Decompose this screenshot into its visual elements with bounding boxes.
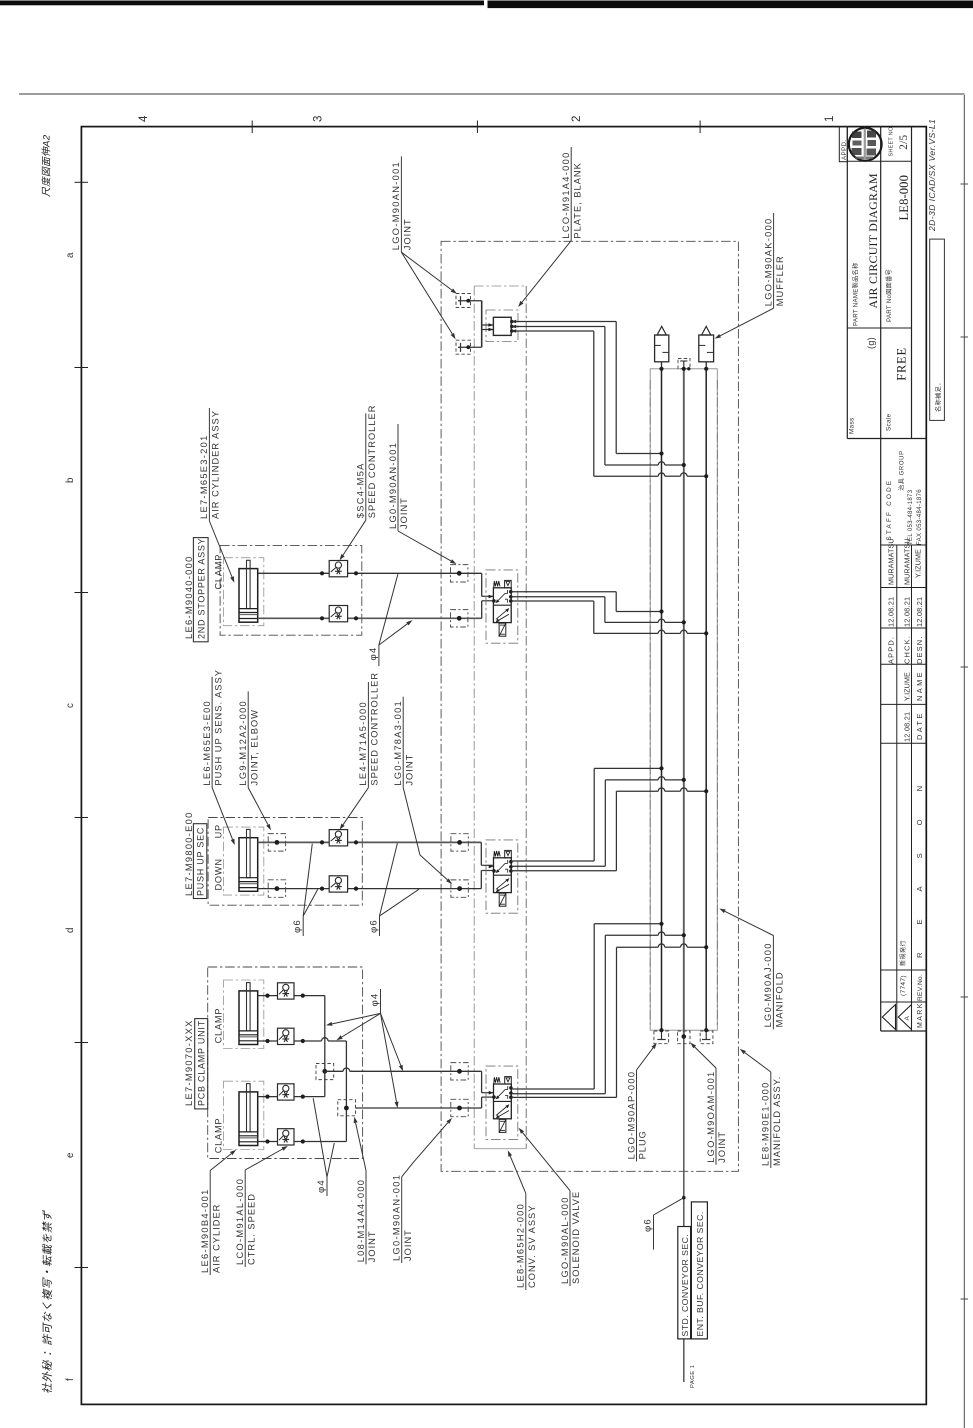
- node dots SC-D: [265, 1139, 269, 1143]
- svg-text:PUSH UP SENS. ASSY: PUSH UP SENS. ASSY: [213, 669, 223, 786]
- manifold assembly chain-line boundary box: [441, 241, 738, 1171]
- wire cyl1 rod port: [258, 572, 482, 574]
- node st2-bus1: [659, 766, 663, 770]
- svg-text:名称補足．: 名称補足．: [935, 379, 943, 412]
- wire st2 valve to bus3: [511, 788, 706, 871]
- svg-text:PART NAME製品名称: PART NAME製品名称: [852, 263, 860, 326]
- plate left port wires: [482, 301, 494, 348]
- wire st2 valve to bus2: [511, 777, 684, 867]
- scan artifact: top black bar left: [0, 1, 484, 6]
- label phi4 pcb bottom: [313, 1098, 334, 1196]
- svg-text:LE7-M65E3-201: LE7-M65E3-201: [199, 434, 209, 519]
- svg-text:DOWN: DOWN: [214, 858, 224, 890]
- joint (chain box) LG0-M90AN-001 st3 lower: [451, 1099, 468, 1116]
- svg-text:STAFF CODE: STAFF CODE: [886, 479, 893, 541]
- svg-text:CLAMP: CLAMP: [214, 1008, 224, 1044]
- svg-text:UP: UP: [214, 824, 224, 838]
- cylinder chain box station1: [224, 558, 264, 626]
- exhaust bus line 3: [705, 369, 707, 1030]
- label phi6 supply: [643, 1198, 684, 1250]
- svg-text:AIR CIRCUIT DIAGRAM: AIR CIRCUIT DIAGRAM: [866, 173, 880, 309]
- solenoid valve station2 chain box: [486, 840, 518, 913]
- svg-text:A: A: [904, 1016, 911, 1021]
- conveyor SV assembly chain-line column box: [474, 286, 526, 1149]
- svg-text:LGO-M90AL-000: LGO-M90AL-000: [560, 1196, 570, 1284]
- svg-text:12.08.21: 12.08.21: [903, 597, 912, 627]
- plug on bus3 (dashed): [700, 1030, 713, 1044]
- label LE7-M65E3-201 AIR CYLINDER ASSY: [199, 408, 234, 583]
- svg-text:PLATE, BLANK: PLATE, BLANK: [572, 162, 582, 238]
- pcb clamp unit chain box: [208, 967, 363, 1159]
- svg-text:LE8-M90E1-000: LE8-M90E1-000: [761, 1081, 771, 1166]
- node: joint2 out: [466, 345, 470, 349]
- label phi6 station2 right: [369, 843, 420, 936]
- svg-text:φ6: φ6: [369, 919, 380, 933]
- wire tee2 to valve3 (lower): [356, 1107, 482, 1109]
- solenoid valve station3 body: [489, 1077, 513, 1133]
- node dots SC-A: [265, 994, 269, 998]
- node st2-bus3: [704, 789, 708, 793]
- label LE8-M65H2-000 CONV SV ASSY: [508, 1150, 537, 1290]
- svg-text:φ6: φ6: [643, 1218, 654, 1232]
- plate blank LCO-M91A4-000: [493, 317, 511, 335]
- svg-text:PART No図面番号: PART No図面番号: [886, 269, 893, 322]
- svg-text:4: 4: [138, 115, 150, 122]
- supply line to conveyor sections: [683, 1037, 685, 1383]
- svg-text:MURAMATSU: MURAMATSU: [887, 538, 896, 585]
- svg-text:LE7-M9070-XXX: LE7-M9070-XXX: [184, 1019, 194, 1106]
- svg-text:LE6-M90B4-001: LE6-M90B4-001: [200, 1188, 210, 1273]
- joint (chain box) LG0-M78A3-001 st2 upper: [451, 834, 468, 851]
- scan artifact: paper top edge line: [19, 93, 965, 95]
- wire cyl2 piston port: [258, 888, 482, 890]
- svg-text:CHCK.: CHCK.: [903, 635, 912, 664]
- label LG0-M90AN-001 JOINT (station1): [388, 424, 457, 564]
- 2nd stopper boxed label LE6-M9040-000: [184, 538, 208, 642]
- air cylinder station1 CLAMP: [239, 560, 258, 622]
- node: LG0-M90AN-001 st3 upper: [457, 1069, 462, 1074]
- node: muffler2 to bus1: [704, 367, 708, 371]
- supplementary name box below frame: [930, 239, 945, 420]
- label LG9-M12A2-000 JOINT ELBOW: [238, 691, 271, 830]
- svg-text:LE4-M71A5-000: LE4-M71A5-000: [358, 701, 368, 786]
- bus manifold thin box: [650, 369, 717, 1030]
- svg-text:MANIFOLD: MANIFOLD: [775, 971, 785, 1027]
- supply bus line 2: [683, 369, 685, 1037]
- svg-text:JOINT: JOINT: [717, 1131, 727, 1163]
- svg-text:LE6-M65E3-E00: LE6-M65E3-E00: [202, 700, 212, 786]
- svg-text:LG0-M90AN-001: LG0-M90AN-001: [392, 1174, 402, 1261]
- label LG8-M14A4-000 JOINT: [354, 1117, 378, 1265]
- speed controller pcb SC-B: [278, 1028, 295, 1044]
- speed controller LE4-M71A5-000 #2: [329, 876, 347, 892]
- joint (chain box) LG0-M90AN-001 st1 lower: [451, 610, 468, 627]
- svg-text:APPD.: APPD.: [841, 139, 848, 160]
- node: plate1-bus1: [659, 451, 663, 455]
- svg-text:AIR CYLIDER: AIR CYLIDER: [211, 1204, 221, 1273]
- label LGO-M90AJ-000 MANIFOLD: [719, 909, 784, 1030]
- joint LGO-M90AM-001 on bus2 (dashed): [678, 1031, 690, 1044]
- speed controller pcb SC-A: [278, 983, 295, 999]
- cylinder chain box pcb2: [224, 1081, 264, 1149]
- label LE6-M65E3-E00 PUSH UP SENS ASSY: [202, 669, 235, 845]
- node: joint1 out: [466, 299, 470, 303]
- wire st3 into valve: [482, 1071, 494, 1108]
- svg-text:Y.IZUME: Y.IZUME: [903, 672, 912, 701]
- zone ticks on top edge: [252, 121, 700, 134]
- wire tee1 to valve3 (upper): [325, 1070, 343, 1072]
- wire cyl1 piston port: [258, 617, 482, 619]
- node: plate2-bus2: [682, 463, 686, 467]
- APPD mini box above stamp cell: [839, 127, 847, 162]
- svg-text:MARK: MARK: [917, 1002, 924, 1028]
- label LCO-M91AL-000 CTRL SPEED: [235, 1146, 288, 1267]
- svg-text:L08-M14A4-000: L08-M14A4-000: [356, 1179, 366, 1263]
- svg-text:d: d: [65, 928, 76, 933]
- svg-text:SHEET NO.: SHEET NO.: [889, 125, 895, 157]
- node bus2 joint: [682, 1034, 687, 1039]
- boxed label STD CONVEYOR SEC: [678, 1227, 691, 1339]
- svg-text:LCO-M91AL-000: LCO-M91AL-000: [235, 1178, 245, 1265]
- node: LG0-M78A3-001 st2 upper: [457, 840, 462, 845]
- exhaust bus line 1: [661, 369, 663, 1030]
- label LG0-M90AN-001 JOINT (pcb): [392, 1118, 453, 1263]
- joint (chain box) LG0-M90AN-001 st1 upper: [451, 565, 468, 582]
- svg-text:LGO-M9OAM-001: LGO-M9OAM-001: [706, 1070, 716, 1162]
- svg-text:a: a: [65, 252, 76, 258]
- svg-text:φ6: φ6: [292, 919, 303, 933]
- wire st1 valve to bus2: [511, 597, 684, 623]
- label LE8-M90E1-000 MANIFOLD ASSY: [740, 1049, 782, 1168]
- revision triangle row2 with A: [898, 1005, 911, 1030]
- node tee2: [344, 1106, 349, 1111]
- node st1-bus2: [682, 620, 686, 624]
- label LCO-M91A4-000 PLATE BLANK: [518, 147, 582, 307]
- wire st3 valve to bus2: [511, 932, 684, 1094]
- svg-text:3: 3: [313, 116, 325, 122]
- label LGO-M90AM-001 JOINT: [690, 1043, 727, 1165]
- label LGO-M90AK-000 MUFFLER: [715, 213, 785, 339]
- air cylinder pcb clamp1: [239, 983, 258, 1045]
- wire st3 valve to bus1: [511, 924, 661, 1089]
- svg-text:JOINT: JOINT: [367, 1230, 377, 1262]
- label LGO-M90AN-001 JOINT (plate joints): [391, 156, 457, 339]
- svg-text:LE7-M9800-E00: LE7-M9800-E00: [184, 811, 194, 896]
- svg-text:CLAMP: CLAMP: [214, 554, 224, 590]
- wire plate port2 to bus2: [511, 327, 684, 466]
- svg-text:CONV. SV ASSY: CONV. SV ASSY: [527, 1205, 537, 1288]
- zone ticks on left edge: [75, 182, 89, 1267]
- svg-text:PLUG: PLUG: [638, 1130, 648, 1159]
- node dots SC4: [320, 887, 324, 891]
- node elbow2: [275, 886, 280, 891]
- svg-text:2/5: 2/5: [898, 134, 910, 149]
- plate right ports: [510, 320, 516, 333]
- wire pcb cyl1 piston: [258, 1040, 322, 1042]
- wire pcb cyl2 piston: [258, 1141, 347, 1143]
- node st3-bus3: [704, 945, 708, 949]
- label phi4 station1: [368, 574, 412, 666]
- svg-text:MANIFOLD ASSY.: MANIFOLD ASSY.: [772, 1076, 782, 1166]
- svg-text:STD. CONVEYOR SEC.: STD. CONVEYOR SEC.: [680, 1234, 690, 1337]
- svg-text:LCO-M91A4-000: LCO-M91A4-000: [561, 151, 571, 238]
- svg-text:JOINT: JOINT: [404, 754, 414, 786]
- node: LG0-M90AN-001 st1 lower: [457, 616, 462, 621]
- node st2-bus2: [682, 778, 686, 782]
- tee joint dashed box 1: [316, 996, 334, 1080]
- muffler LGO-M90AK-000 #2: [699, 326, 714, 368]
- svg-text:APPD.: APPD.: [887, 636, 896, 664]
- node dots SC-B: [265, 1039, 269, 1043]
- node bus1 end: [659, 1028, 663, 1032]
- svg-text:φ4: φ4: [316, 1179, 327, 1193]
- node dots SC3: [320, 840, 324, 844]
- svg-text:SPEED CONTROLLER: SPEED CONTROLLER: [367, 405, 377, 519]
- svg-text:NAME: NAME: [915, 670, 924, 701]
- svg-text:FAX 053-484-1876: FAX 053-484-1876: [917, 489, 923, 545]
- svg-text:12.08.21: 12.08.21: [887, 597, 896, 627]
- pcb clamp boxed label LE7-M9070-XXX: [184, 1019, 208, 1109]
- label LE6-M90B4-001 AIR CYLIDER: [200, 1150, 236, 1275]
- node st3-bus2: [682, 933, 686, 937]
- svg-text:PUSH UP SEC: PUSH UP SEC: [196, 827, 206, 896]
- label $SC4-M5A SPEED CONTROLLER: [340, 405, 377, 561]
- label LGO-M90AL-000 SOLENOID VALVE: [519, 1128, 582, 1286]
- air cylinder station2 PUSH UP: [239, 829, 258, 891]
- wire st1 valve to bus3: [511, 601, 706, 633]
- svg-text:$SC4-M5A: $SC4-M5A: [356, 462, 366, 518]
- label phi6 station2 left: [292, 844, 318, 936]
- svg-text:LGO-M90AK-000: LGO-M90AK-000: [763, 217, 773, 306]
- plug LGO-M90AP-000 on bus1 (dashed): [654, 1030, 669, 1044]
- svg-text:AIR CYLINDER ASSY: AIR CYLINDER ASSY: [211, 410, 221, 519]
- joint (chain box) LG0-M90AN-001 st3 upper: [451, 1063, 468, 1080]
- wire st2 into valve: [481, 842, 493, 888]
- drawing frame border: [81, 127, 926, 1405]
- scan artifact: top black bar right: [488, 1, 973, 9]
- svg-text:1: 1: [824, 116, 836, 122]
- svg-text:MURAMATSU: MURAMATSU: [903, 538, 912, 585]
- push up boxed label LE7-M9800-E00: [184, 811, 207, 898]
- joint (chain box) LG0-M78A3-001 st2 lower: [451, 880, 468, 897]
- svg-text:f: f: [65, 1378, 76, 1381]
- scan artifact: paper right edge line with fold ticks: [961, 95, 969, 1428]
- svg-text:CTRL. SPEED: CTRL. SPEED: [246, 1193, 256, 1265]
- speed controller pcb SC-D: [278, 1129, 295, 1145]
- elbow joint chain box lower: [268, 880, 285, 898]
- node st3-bus1: [659, 922, 663, 926]
- svg-text:TEL 053-484-1873: TEL 053-484-1873: [908, 489, 914, 545]
- label LE4-M71A5-000 SPEED CONTROLLER: [340, 672, 380, 830]
- svg-text:DATE: DATE: [915, 711, 924, 740]
- node dots SC-C: [265, 1095, 269, 1099]
- wire plate port1 to bus1: [511, 322, 661, 454]
- label LG0-M78A3-001 JOINT: [393, 697, 452, 884]
- node st1-bus3: [704, 631, 708, 635]
- stamp cell divider: [863, 127, 865, 162]
- node st1-bus1: [659, 609, 663, 613]
- node dots SC2: [320, 616, 324, 620]
- wire plate port3 to bus3: [511, 331, 706, 476]
- approval stamp circle: [849, 128, 882, 161]
- svg-text:LE8-000: LE8-000: [897, 175, 911, 220]
- svg-text:JOINT: JOINT: [399, 497, 409, 529]
- svg-text:LGO-M90AN-001: LGO-M90AN-001: [391, 161, 401, 250]
- label phi4 pcb top: [326, 989, 403, 1108]
- cylinder chain box station2: [224, 827, 264, 895]
- svg-text:PCB CLAMP UNIT: PCB CLAMP UNIT: [197, 1020, 207, 1106]
- plate blank chain box: [486, 310, 518, 342]
- node bus3 end: [704, 1028, 708, 1032]
- 2nd stopper assembly chain box: [220, 546, 362, 636]
- svg-text:PAGE 1: PAGE 1: [690, 1364, 696, 1388]
- wire st1 into valve: [482, 573, 494, 618]
- svg-text:尺度図面伸A2: 尺度図面伸A2: [41, 134, 53, 197]
- svg-text:社外秘 ：許可なく複写・転載を禁ず: 社外秘 ：許可なく複写・転載を禁ず: [41, 1210, 54, 1394]
- speed controller pcb SC-C: [278, 1084, 295, 1100]
- title block grid: [847, 127, 926, 1031]
- svg-text:φ4: φ4: [368, 647, 379, 661]
- svg-text:REASON: REASON: [915, 758, 924, 958]
- svg-text:b: b: [65, 477, 76, 483]
- svg-text:(g): (g): [866, 337, 876, 349]
- speed controller $SC4-M5A #1: [329, 561, 347, 577]
- tee joint dashed box 2: [338, 1041, 356, 1142]
- svg-text:12.08.21: 12.08.21: [915, 597, 924, 627]
- svg-text:SOLENOID VALVE: SOLENOID VALVE: [571, 1191, 581, 1284]
- svg-text:JOINT: JOINT: [403, 1229, 413, 1261]
- svg-text:CLAMP: CLAMP: [214, 1118, 224, 1154]
- joint dashed box top #2: [456, 340, 482, 354]
- node: LG0-M90AN-001 st1 upper: [457, 571, 462, 576]
- svg-text:Y.IZUME: Y.IZUME: [914, 549, 923, 578]
- cylinder chain box pcb1: [224, 980, 264, 1049]
- solenoid valve station3 chain box: [486, 1066, 518, 1139]
- svg-text:ENT. BUF. CONVEYOR SEC.: ENT. BUF. CONVEYOR SEC.: [695, 1211, 705, 1336]
- node tee1: [322, 1069, 327, 1074]
- speed controller $SC4-M5A #2: [329, 606, 347, 622]
- svg-text:2D-3D ICAD/SX Ver.VS-L1: 2D-3D ICAD/SX Ver.VS-L1: [927, 119, 937, 232]
- boxed label ENT BUF CONVEYOR SEC: [691, 1202, 707, 1339]
- node: plate3-bus3: [704, 474, 708, 478]
- svg-text:12.08.21: 12.08.21: [903, 712, 912, 742]
- speed controller LE4-M71A5-000 #1: [329, 830, 347, 846]
- node dots SC1: [320, 571, 324, 575]
- svg-text:JOINT, ELBOW: JOINT, ELBOW: [249, 709, 259, 786]
- svg-text:LG0-M90AN-001: LG0-M90AN-001: [388, 442, 398, 529]
- wire st2 valve to bus1: [511, 768, 661, 861]
- solenoid valve station1 chain box: [486, 570, 518, 643]
- svg-text:治具 GROUP: 治具 GROUP: [898, 450, 906, 490]
- joint dashed box top #1: [456, 294, 482, 308]
- node: LG0-M78A3-001 st2 lower: [457, 886, 462, 891]
- svg-text:SPEED CONTROLLER: SPEED CONTROLLER: [370, 672, 380, 786]
- svg-text:LG0-M90AJ-000: LG0-M90AJ-000: [763, 942, 773, 1027]
- svg-text:2ND STOPPER ASSY: 2ND STOPPER ASSY: [196, 538, 206, 639]
- solenoid valve station1 body: [489, 580, 513, 636]
- svg-text:REV.No.: REV.No.: [917, 974, 924, 1001]
- node: LG0-M90AN-001 st3 lower: [457, 1106, 462, 1111]
- wire st1 valve to bus1: [511, 592, 661, 612]
- svg-text:LE6-M9040-000: LE6-M9040-000: [184, 555, 194, 639]
- wire st3 valve to bus3: [511, 944, 706, 1097]
- svg-text:c: c: [65, 703, 76, 708]
- wire cyl2 rod port: [258, 841, 482, 843]
- muffler LGO-M90AK-000 #1: [655, 326, 669, 368]
- svg-text:(7747): (7747): [900, 975, 907, 996]
- svg-text:JOINT: JOINT: [403, 218, 413, 250]
- solenoid valve station2 body: [489, 850, 513, 906]
- svg-text:Scale: Scale: [886, 413, 893, 431]
- svg-text:MUFFLER: MUFFLER: [775, 255, 785, 306]
- node: supply top joint: [682, 367, 686, 371]
- svg-text:新規発行: 新規発行: [899, 940, 907, 966]
- node elbow1: [275, 840, 280, 845]
- node: supply phi6 junction: [682, 1196, 686, 1200]
- wire pcb cyl2 rod riser to tee1: [324, 1071, 326, 1096]
- air cylinder pcb clamp2: [239, 1084, 258, 1146]
- svg-text:LGO-M90AP-000: LGO-M90AP-000: [626, 1071, 636, 1160]
- wire pcb cyl1 rod: [258, 995, 325, 997]
- joint on supply bus top (dashed): [678, 359, 690, 369]
- elbow joint chain box upper: [268, 834, 285, 852]
- svg-text:DESN.: DESN.: [915, 635, 924, 664]
- svg-text:LG9-M12A2-000: LG9-M12A2-000: [238, 700, 248, 786]
- svg-text:φ4: φ4: [370, 993, 381, 1007]
- label LGO-M90AP-000 PLUG: [626, 1043, 657, 1162]
- revision triangle row1: [882, 1005, 895, 1030]
- node: muffler1 to bus1: [659, 367, 663, 371]
- svg-text:e: e: [65, 1152, 76, 1158]
- push up sec assembly chain box: [208, 818, 362, 906]
- svg-text:Mass: Mass: [849, 418, 856, 434]
- svg-text:LE8-M65H2-000: LE8-M65H2-000: [516, 1203, 526, 1288]
- svg-text:2: 2: [571, 116, 583, 122]
- svg-text:FREE: FREE: [895, 347, 909, 381]
- svg-text:LG0-M78A3-001: LG0-M78A3-001: [393, 700, 403, 786]
- wire pcb cyl2 rod: [258, 1096, 325, 1098]
